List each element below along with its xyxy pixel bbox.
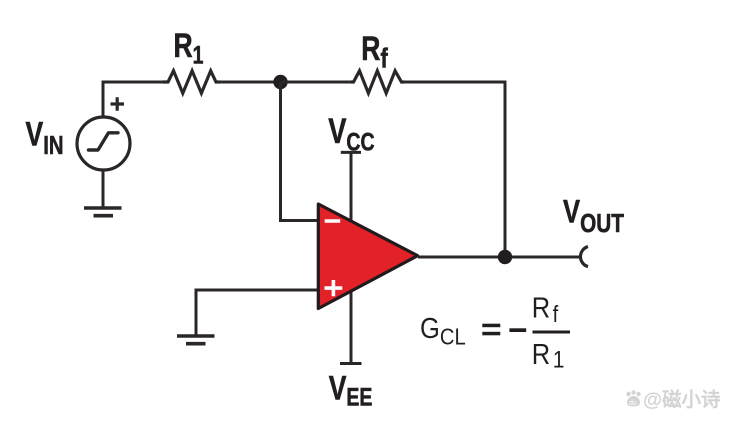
label R1 — [174, 27, 204, 69]
wire: node A to Rf — [281, 81, 351, 84]
svg-text:R: R — [532, 291, 550, 324]
watermark — [626, 388, 721, 411]
svg-text:f: f — [553, 301, 560, 328]
wire: node A down to inverting input — [281, 82, 319, 221]
VEE supply bar — [340, 362, 362, 365]
label VEE — [329, 369, 373, 411]
wire: Rf to feedback corner — [404, 81, 507, 84]
wire: top horizontal from source to R1 — [102, 81, 164, 84]
VCC supply bar — [341, 151, 361, 154]
op-amp plus input sign — [325, 280, 343, 296]
op-amp U1 — [318, 204, 417, 309]
label Rf — [361, 30, 388, 74]
wire: VEE supply lead — [350, 287, 353, 364]
svg-text:1: 1 — [553, 346, 565, 373]
wire: feedback vertical down to output node — [504, 81, 507, 258]
formula GCL = -Rf/R1 — [420, 291, 570, 373]
resistor Rf — [351, 71, 404, 93]
ground (non-inverting input) — [177, 336, 215, 344]
wire: non-inverting input from ground — [196, 289, 318, 292]
svg-text:@磁小诗: @磁小诗 — [643, 388, 721, 411]
wire: source top vertical — [102, 82, 105, 117]
svg-text:du: du — [629, 400, 637, 407]
resistor R1 — [163, 71, 220, 93]
ground (below source) — [84, 208, 122, 216]
output terminal arc — [580, 247, 588, 267]
voltage source VIN circle — [77, 117, 130, 170]
label VCC — [328, 112, 374, 156]
svg-text:R: R — [532, 337, 550, 370]
wire: output — [418, 256, 580, 259]
wire: vertical to ground 2 — [195, 289, 198, 337]
wire: VCC supply lead — [350, 152, 353, 225]
op-amp minus input sign — [325, 219, 341, 223]
ramp symbol inside source — [89, 133, 119, 150]
wire: source bottom vertical — [102, 170, 105, 208]
plus polarity sign — [111, 97, 125, 110]
wire: R1 to node A — [220, 81, 281, 84]
label VOUT — [563, 195, 625, 238]
label VIN — [26, 115, 64, 159]
node B (output junction dot) — [498, 250, 512, 264]
node A (junction dot) — [273, 75, 287, 89]
